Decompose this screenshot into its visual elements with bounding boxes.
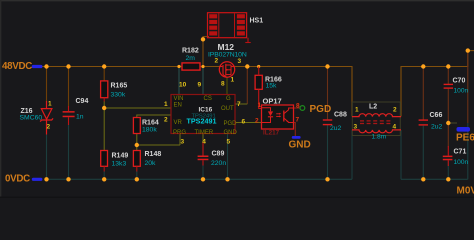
svg-text:8: 8 <box>296 103 300 110</box>
svg-text:10: 10 <box>179 82 187 89</box>
svg-text:R149: R149 <box>112 153 129 160</box>
svg-text:R148: R148 <box>145 151 162 158</box>
svg-text:TIMER: TIMER <box>195 130 214 136</box>
svg-text:C94: C94 <box>76 98 89 105</box>
svg-text:C71: C71 <box>454 149 467 156</box>
svg-text:8: 8 <box>221 81 225 88</box>
svg-text:2: 2 <box>47 124 51 131</box>
svg-text:1: 1 <box>48 101 52 108</box>
svg-text:R164: R164 <box>142 120 159 127</box>
svg-text:PE6: PE6 <box>456 133 474 144</box>
svg-text:EN: EN <box>174 103 182 109</box>
svg-text:SMC60: SMC60 <box>20 115 43 122</box>
svg-text:PGD: PGD <box>224 121 238 127</box>
svg-text:PRG: PRG <box>173 130 186 136</box>
svg-text:2u2: 2u2 <box>330 125 342 132</box>
svg-text:0VDC: 0VDC <box>5 174 30 185</box>
svg-text:1n: 1n <box>76 114 84 121</box>
svg-text:M0V: M0V <box>457 186 474 197</box>
svg-text:180k: 180k <box>142 127 157 134</box>
svg-text:4: 4 <box>393 124 397 131</box>
svg-text:2m: 2m <box>186 55 196 62</box>
svg-text:13k3: 13k3 <box>112 161 127 168</box>
svg-text:HS1: HS1 <box>250 18 264 25</box>
svg-text:L2: L2 <box>369 104 377 111</box>
svg-text:1: 1 <box>258 102 262 109</box>
svg-text:7: 7 <box>296 117 300 124</box>
svg-text:2: 2 <box>393 107 397 114</box>
svg-text:3: 3 <box>354 124 358 131</box>
svg-text:M12: M12 <box>218 42 235 52</box>
svg-text:100n: 100n <box>454 159 469 166</box>
svg-text:3: 3 <box>181 139 185 146</box>
svg-text:OP17: OP17 <box>263 97 282 106</box>
svg-text:6: 6 <box>242 119 246 126</box>
svg-text:48VDC: 48VDC <box>2 61 32 72</box>
svg-text:2u2: 2u2 <box>431 124 443 131</box>
svg-text:330k: 330k <box>111 92 126 99</box>
svg-text:4: 4 <box>202 139 206 146</box>
svg-text:9: 9 <box>198 82 202 89</box>
svg-text:GND: GND <box>289 140 311 151</box>
svg-text:220n: 220n <box>211 160 226 167</box>
svg-text:C70: C70 <box>453 78 466 85</box>
svg-text:2: 2 <box>215 58 219 65</box>
svg-text:C66: C66 <box>430 112 443 119</box>
svg-text:2: 2 <box>164 117 168 124</box>
svg-text:5: 5 <box>227 139 231 146</box>
svg-text:R182: R182 <box>182 48 199 55</box>
svg-text:CS: CS <box>204 96 212 102</box>
svg-text:IC16: IC16 <box>199 107 213 114</box>
svg-text:15k: 15k <box>266 83 278 90</box>
svg-text:G: G <box>226 96 231 102</box>
svg-text:100n: 100n <box>454 88 469 95</box>
svg-text:PGD: PGD <box>310 104 332 115</box>
svg-text:3: 3 <box>238 58 242 65</box>
svg-text:VR: VR <box>174 120 183 126</box>
svg-text:1: 1 <box>231 77 235 84</box>
svg-text:1.8m: 1.8m <box>372 134 387 141</box>
svg-text:IL217: IL217 <box>263 130 280 137</box>
svg-text:7: 7 <box>237 101 241 108</box>
svg-text:R165: R165 <box>111 83 128 90</box>
svg-text:20k: 20k <box>145 160 157 167</box>
svg-text:VIN: VIN <box>174 96 184 102</box>
svg-text:1: 1 <box>164 101 168 108</box>
svg-text:1: 1 <box>355 107 359 114</box>
svg-text:TPS2491: TPS2491 <box>187 117 217 126</box>
svg-text:GND: GND <box>224 130 238 136</box>
svg-text:C88: C88 <box>334 112 347 119</box>
svg-text:C89: C89 <box>212 151 225 158</box>
svg-text:2: 2 <box>255 118 259 125</box>
svg-text:OUT: OUT <box>221 106 234 112</box>
